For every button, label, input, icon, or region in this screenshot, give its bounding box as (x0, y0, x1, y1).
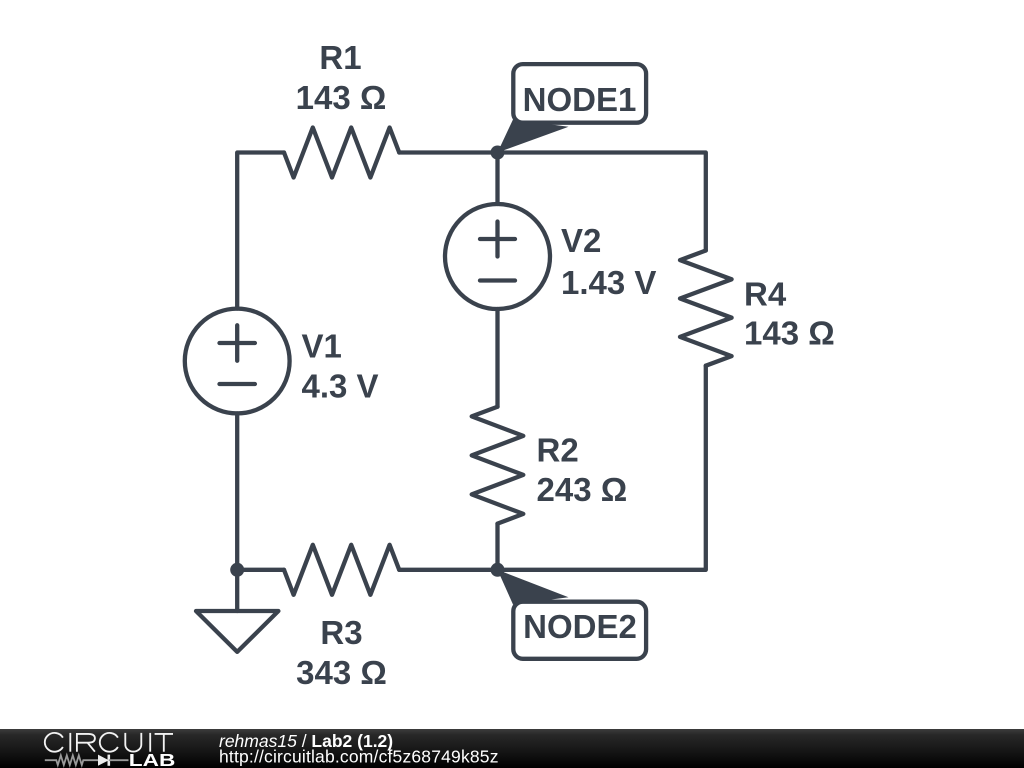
svg-text:R3: R3 (320, 614, 362, 651)
wire node2 to R3 right lead (399, 568, 497, 572)
V2 minus sign (480, 278, 515, 282)
logo letter C (100, 733, 118, 752)
logo letter U (125, 733, 141, 752)
logo diode triangle (98, 755, 109, 766)
V1 plus sign (220, 325, 255, 360)
svg-text:NODE2: NODE2 (523, 608, 637, 645)
node B junction dot NODE2 (491, 563, 505, 577)
wire node1 to V2 top (495, 153, 499, 205)
svg-text:243 Ω: 243 Ω (537, 471, 628, 508)
NODE1 flag tail (498, 120, 569, 153)
logo CIRCUIT wordmark (45, 733, 173, 752)
resistor R1 (284, 128, 399, 178)
svg-text:NODE1: NODE1 (523, 81, 637, 118)
V2 plus sign (480, 222, 515, 257)
logo letter I (69, 733, 71, 752)
svg-text:143 Ω: 143 Ω (744, 315, 835, 352)
logo diode cathode bar (108, 755, 111, 766)
NODE2 flag box (513, 602, 646, 659)
wire top: R1 right lead to right column, down to R4 (399, 153, 706, 251)
svg-text:1.43 V: 1.43 V (561, 264, 656, 301)
voltage source V1 circle (185, 309, 290, 414)
logo wire with resistor (45, 755, 98, 765)
node C junction dot ground node (230, 563, 244, 577)
svg-text:4.3 V: 4.3 V (302, 367, 379, 404)
svg-text:V2: V2 (561, 222, 601, 259)
logo letter R (77, 733, 95, 752)
svg-text:R2: R2 (537, 431, 579, 468)
svg-text:V1: V1 (302, 327, 342, 364)
NODE1 flag box (513, 64, 646, 123)
NODE2 flag tail (498, 570, 569, 605)
wire V2 bottom to R2 top (495, 309, 499, 407)
V1 minus sign (220, 382, 255, 386)
wire left column bottom: V1 bottom to ground (235, 413, 239, 611)
svg-text:LAB: LAB (129, 750, 176, 768)
svg-text:R1: R1 (319, 39, 361, 76)
wire R3 left lead to left column (237, 568, 284, 572)
resistor R4 (680, 251, 732, 366)
logo letter I (149, 733, 151, 752)
wire R2 bottom to node2 (495, 524, 499, 570)
voltage source V2 circle (445, 204, 550, 309)
svg-text:343 Ω: 343 Ω (296, 654, 387, 691)
svg-text:R4: R4 (744, 275, 787, 312)
wire top-left: R1 left lead to left column top (237, 153, 284, 309)
resistor R3 (284, 545, 399, 595)
svg-text:143 Ω: 143 Ω (296, 79, 387, 116)
logo wire after diode (109, 759, 129, 761)
node A junction dot NODE1 (491, 146, 505, 160)
resistor R2 (472, 407, 524, 524)
svg-text:http://circuitlab.com/cf5z6874: http://circuitlab.com/cf5z68749k85z (219, 746, 499, 766)
ground (196, 611, 278, 652)
wire right column bottom to node2 (498, 366, 706, 570)
logo letter C (45, 733, 63, 752)
logo letter T (155, 734, 173, 752)
